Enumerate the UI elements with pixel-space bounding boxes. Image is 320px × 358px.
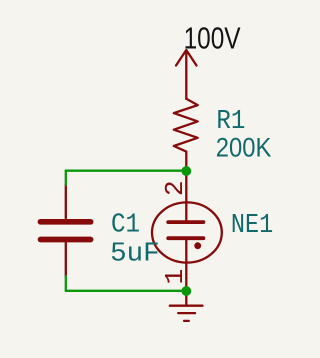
- svg-text:2: 2: [160, 180, 190, 196]
- svg-text:5uF: 5uF: [110, 240, 160, 270]
- svg-text:200K: 200K: [216, 132, 271, 163]
- svg-text:NE1: NE1: [231, 211, 273, 241]
- svg-text:100V: 100V: [184, 21, 241, 56]
- svg-text:1: 1: [160, 269, 190, 285]
- svg-text:C1: C1: [111, 211, 140, 241]
